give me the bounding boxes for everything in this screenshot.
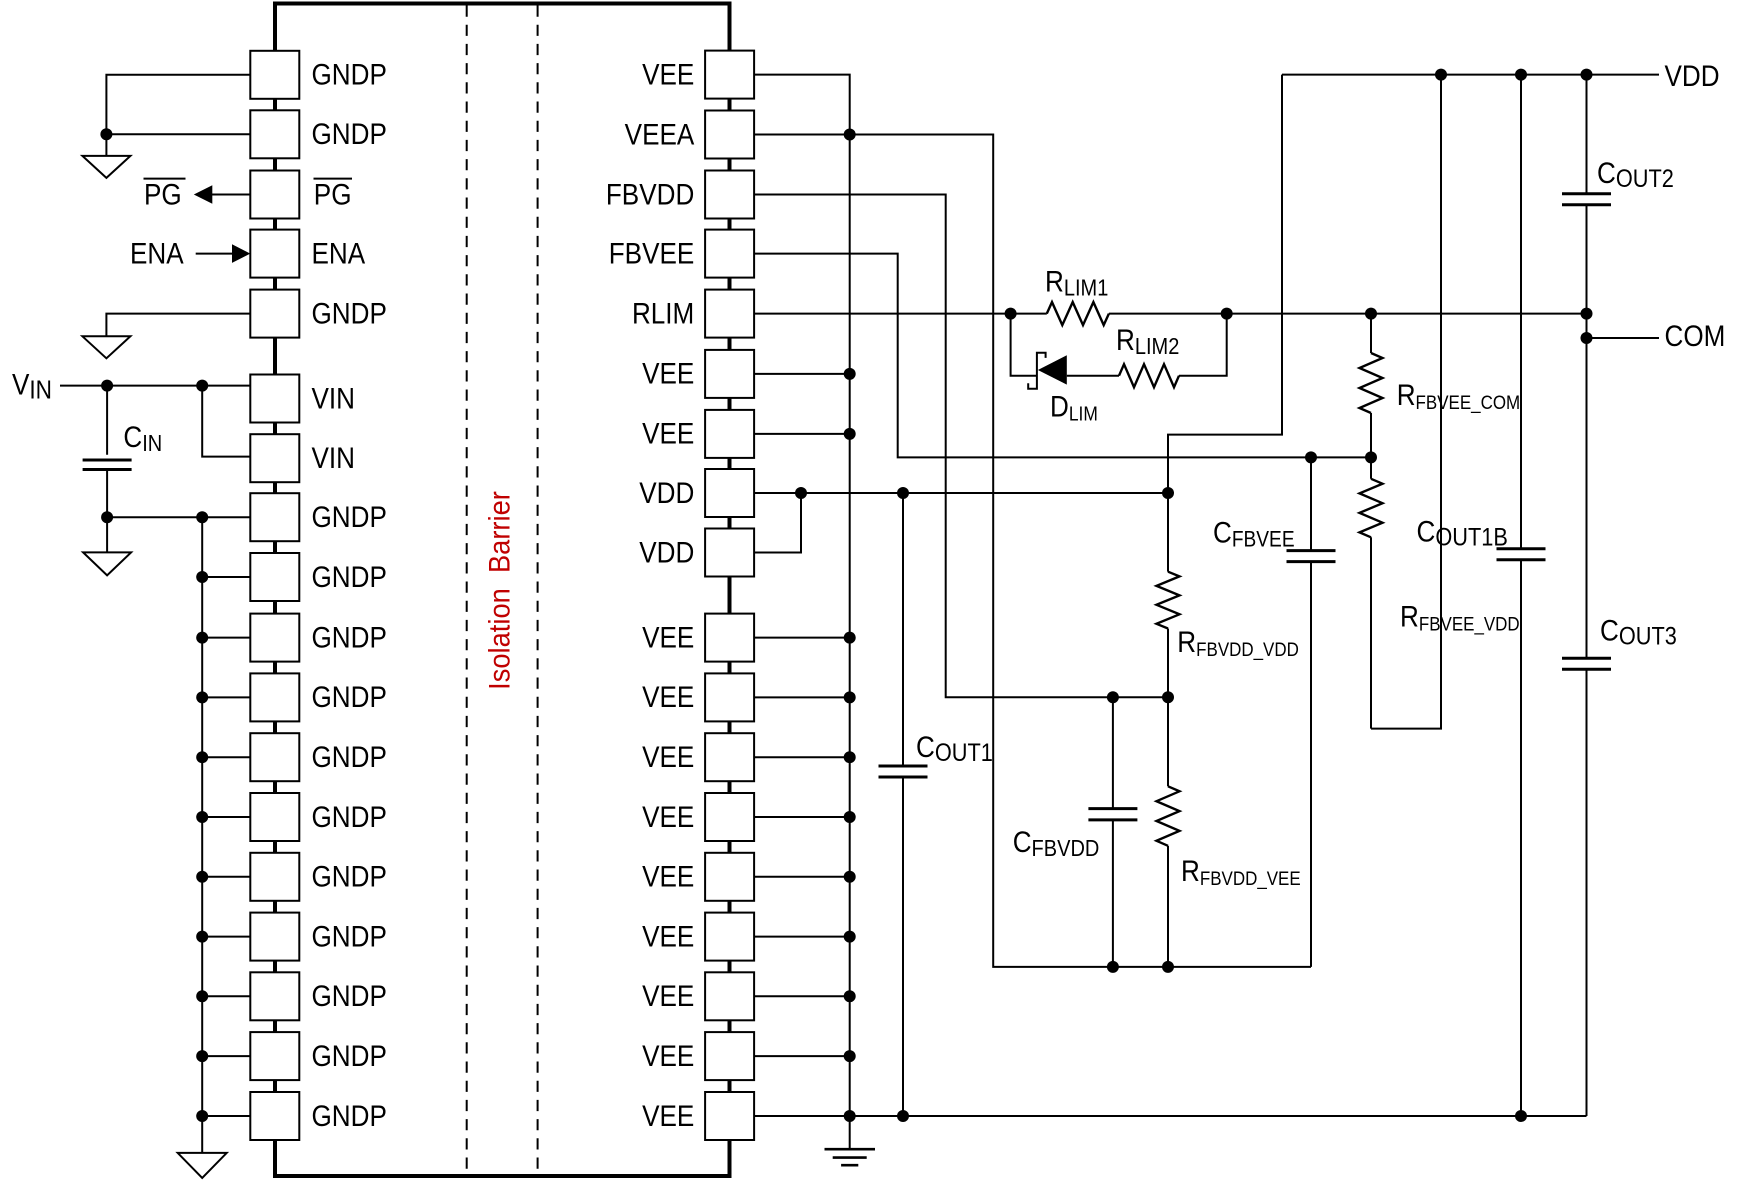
junction FBVEE / RFBVEE bbox=[1365, 451, 1377, 463]
wire VEE bottom rail bbox=[754, 1115, 1586, 1117]
junction VEE bus 697 bbox=[844, 691, 856, 703]
wire VDD pin9 bbox=[754, 493, 801, 553]
pin GNDP (left 8) bbox=[250, 493, 387, 541]
svg-text:VEE: VEE bbox=[642, 417, 694, 450]
wire VEE row 877 bbox=[754, 876, 850, 878]
wire VIN bbox=[60, 385, 250, 387]
junction COUT1 bottom bbox=[897, 1110, 909, 1122]
junction VEE bus 996 bbox=[844, 990, 856, 1002]
wire VEE row 697 bbox=[754, 696, 850, 698]
svg-text:ENA: ENA bbox=[130, 237, 184, 270]
capacitor COUT3 bbox=[1562, 658, 1611, 1116]
junction GNDP bus 577 bbox=[196, 571, 208, 583]
wire GNDP row 877 bbox=[202, 876, 250, 878]
junction RLIM2 top bbox=[1221, 308, 1233, 320]
pin VEE (right 6) bbox=[642, 350, 754, 398]
wire GNDP row 577 bbox=[202, 576, 250, 578]
wire GNDP row 817 bbox=[202, 816, 250, 818]
wire VEE pin1 + VEE bus bbox=[754, 75, 850, 1149]
svg-text:GNDP: GNDP bbox=[312, 920, 387, 953]
pin VEE (right 16) bbox=[642, 972, 754, 1020]
junction VIN / CIN bbox=[101, 380, 113, 392]
wire GNDP row 1056 bbox=[202, 1055, 250, 1057]
wire GNDP pin2 to ground bbox=[106, 134, 250, 156]
isolation barrier dashed line (left) bbox=[466, 6, 468, 1175]
pin VEE (right 11) bbox=[642, 673, 754, 721]
junction VDD rail / RFBVEE_VDD bbox=[1435, 69, 1447, 81]
svg-text:FBVEE: FBVEE bbox=[609, 237, 695, 270]
svg-text:GNDP: GNDP bbox=[312, 500, 387, 533]
junction COUT1B bottom bbox=[1515, 1110, 1527, 1122]
resistor RFBVEE_COM bbox=[1360, 314, 1383, 458]
svg-text:GNDP: GNDP bbox=[312, 560, 387, 593]
PG output arrow bbox=[206, 194, 250, 196]
svg-text:GNDP: GNDP bbox=[312, 117, 387, 150]
wire GNDP row 697 bbox=[202, 696, 250, 698]
svg-text:GNDP: GNDP bbox=[312, 860, 387, 893]
IC body U1 outline bbox=[275, 4, 730, 1177]
pin VEE (right 13) bbox=[642, 793, 754, 841]
junction bottom rail / RFBVDD_VEE bbox=[1162, 961, 1174, 973]
wire RLIM to COM (left part) bbox=[754, 313, 1047, 315]
pin VEE (right 18) bbox=[642, 1092, 754, 1140]
wire VEE pin6 bbox=[754, 373, 850, 375]
wire VEE row 757 bbox=[754, 756, 850, 758]
svg-text:VEE: VEE bbox=[642, 681, 694, 714]
wire VEE pin7 bbox=[754, 433, 850, 435]
svg-text:GNDP: GNDP bbox=[312, 979, 387, 1012]
junction GNDP bus 1116 bbox=[196, 1110, 208, 1122]
wire VDD rail top bbox=[1282, 74, 1659, 76]
wire VEE row 1056 bbox=[754, 1055, 850, 1057]
junction GNDP bus 697 bbox=[196, 691, 208, 703]
capacitor CIN bbox=[83, 386, 132, 518]
svg-text:GNDP: GNDP bbox=[312, 740, 387, 773]
pin VDD (right 9) bbox=[639, 529, 754, 577]
wire COM line (right part) bbox=[1109, 313, 1587, 315]
resistor RLIM1 bbox=[1047, 302, 1109, 325]
ground symbol (mid left) bbox=[82, 336, 130, 358]
ground symbol (top left) bbox=[82, 156, 130, 178]
ENA input arrow bbox=[196, 253, 236, 255]
junction FBVDD line / CFBVDD bbox=[1107, 691, 1119, 703]
wire CIN to ground bbox=[106, 517, 108, 552]
svg-text:VEE: VEE bbox=[642, 621, 694, 654]
pin VIN (left 6) bbox=[250, 375, 355, 423]
junction FBVDD line / RFBVDD bbox=[1162, 691, 1174, 703]
junction VEE bus 374 bbox=[844, 368, 856, 380]
junction bottom rail / CFBVDD bbox=[1107, 961, 1119, 973]
ground symbol (earth, VEE bus) bbox=[825, 1149, 876, 1165]
svg-text:VEE: VEE bbox=[642, 58, 694, 91]
pin GNDP (left 17) bbox=[250, 1032, 387, 1080]
svg-text:VDD: VDD bbox=[639, 476, 694, 509]
junction GNDP bus 937 bbox=[196, 931, 208, 943]
svg-text:Isolation Barrier: Isolation Barrier bbox=[483, 491, 516, 690]
svg-text:GNDP: GNDP bbox=[312, 681, 387, 714]
wire COM stub bbox=[1587, 337, 1660, 339]
wire GNDP row 937 bbox=[202, 936, 250, 938]
junction GNDP bus 1056 bbox=[196, 1050, 208, 1062]
capacitor COUT2 (on VDD/COM column) bbox=[1562, 75, 1611, 658]
svg-text:GNDP: GNDP bbox=[312, 800, 387, 833]
wire GNDP row 996 bbox=[202, 995, 250, 997]
junction RFBVDD_VDD top bbox=[1162, 487, 1174, 499]
junction GNDP bus 877 bbox=[196, 871, 208, 883]
pin VEE (right 12) bbox=[642, 733, 754, 781]
pin GNDP (left 14) bbox=[250, 853, 387, 901]
wire VEE row 996 bbox=[754, 995, 850, 997]
wire FBVDD bbox=[754, 195, 1168, 698]
pin VEE (right 14) bbox=[642, 853, 754, 901]
capacitor CFBVDD bbox=[1088, 697, 1137, 967]
junction VDD rail / COUT1B bbox=[1515, 69, 1527, 81]
svg-text:VEE: VEE bbox=[642, 1099, 694, 1132]
isolation barrier dashed line (right) bbox=[537, 6, 539, 1175]
svg-text:VEE: VEE bbox=[642, 740, 694, 773]
svg-text:VEE: VEE bbox=[642, 979, 694, 1012]
svg-text:GNDP: GNDP bbox=[312, 297, 387, 330]
svg-text:VEE: VEE bbox=[642, 1039, 694, 1072]
svg-text:VDD: VDD bbox=[639, 536, 694, 569]
pin PG (left 3) bbox=[250, 171, 352, 219]
pin GNDP (left 11) bbox=[250, 673, 387, 721]
wire VEE row 817 bbox=[754, 816, 850, 818]
junction RLIM branch bbox=[1005, 308, 1017, 320]
pin GNDP (left 9) bbox=[250, 553, 387, 601]
wire GNDP bus bbox=[201, 517, 203, 1153]
wire RFBVEE_VDD to VDD rail bbox=[1371, 75, 1441, 729]
junction VEEA on VEE bus bbox=[844, 129, 856, 141]
pin VEE (right 15) bbox=[642, 913, 754, 961]
svg-text:PG: PG bbox=[314, 178, 352, 211]
wire DLIM anode to RLIM2 bbox=[1067, 375, 1119, 377]
pin GNDP (left 16) bbox=[250, 972, 387, 1020]
pin GNDP (left 13) bbox=[250, 793, 387, 841]
pin GNDP (left 1) bbox=[250, 51, 387, 99]
wire GNDP row 757 bbox=[202, 756, 250, 758]
wire GNDP pin5 to ground bbox=[106, 314, 250, 337]
junction RFBVEE_COM top bbox=[1365, 308, 1377, 320]
junction VEE bus 937 bbox=[844, 931, 856, 943]
junction FBVEE / CFBVEE bbox=[1305, 451, 1317, 463]
wire GNDP pin8 row bbox=[107, 516, 250, 518]
wire VIN pin7 branch bbox=[202, 386, 250, 457]
junction VEE bus 877 bbox=[844, 871, 856, 883]
junction COM stub bbox=[1581, 332, 1593, 344]
svg-text:VIN: VIN bbox=[312, 382, 355, 415]
pin VEE (right 17) bbox=[642, 1032, 754, 1080]
svg-text:VDD: VDD bbox=[1665, 60, 1720, 93]
resistor RLIM2 bbox=[1119, 364, 1179, 387]
pin GNDP (left 10) bbox=[250, 614, 387, 662]
svg-text:VEE: VEE bbox=[642, 357, 694, 390]
wire VEEA: pin to FBVEE node rail bbox=[754, 135, 1311, 967]
wire RLIM2 to COM line bbox=[1179, 314, 1227, 376]
svg-text:FBVDD: FBVDD bbox=[606, 178, 694, 211]
wire VEE row 638 bbox=[754, 637, 850, 639]
svg-text:VEE: VEE bbox=[642, 920, 694, 953]
junction VEE bus 1056 bbox=[844, 1050, 856, 1062]
junction COM line / column bbox=[1581, 308, 1593, 320]
svg-text:VIN: VIN bbox=[312, 441, 355, 474]
pin GNDP (left 15) bbox=[250, 913, 387, 961]
wire VDD pin8 bbox=[754, 492, 1168, 494]
pin VIN (left 7) bbox=[250, 434, 355, 482]
svg-text:GNDP: GNDP bbox=[312, 58, 387, 91]
diode DLIM (schottky) bbox=[1028, 353, 1067, 389]
resistor RFBVDD_VDD bbox=[1157, 493, 1180, 697]
svg-text:VEE: VEE bbox=[642, 800, 694, 833]
capacitor COUT1B bbox=[1497, 75, 1546, 1116]
svg-text:COM: COM bbox=[1665, 319, 1726, 352]
node PG label bbox=[144, 178, 186, 211]
svg-text:RLIM: RLIM bbox=[632, 297, 694, 330]
svg-text:VEEA: VEEA bbox=[625, 118, 695, 151]
pin VEEA (right 2) bbox=[625, 111, 754, 159]
junction CIN bottom bbox=[101, 511, 113, 523]
pin ENA (left 4) bbox=[250, 230, 365, 278]
capacitor CFBVEE bbox=[1287, 457, 1336, 967]
resistor RFBVDD_VEE bbox=[1157, 697, 1180, 967]
junction VDD pins bbox=[795, 487, 807, 499]
wire RLIM branch down bbox=[1011, 314, 1036, 376]
junction GNDP bus top bbox=[196, 511, 208, 523]
junction GNDP bus 817 bbox=[196, 811, 208, 823]
wire VDD down-step to pin bbox=[1168, 75, 1282, 493]
wire GNDP pin1 to ground bbox=[106, 75, 250, 134]
pin RLIM (right 5) bbox=[632, 290, 754, 338]
junction VEE bus 434 bbox=[844, 428, 856, 440]
junction GNDP bus 638 bbox=[196, 632, 208, 644]
pin GNDP (left 12) bbox=[250, 733, 387, 781]
wire FBVEE bbox=[754, 254, 1371, 458]
svg-text:GNDP: GNDP bbox=[312, 1039, 387, 1072]
resistor RFBVEE_VDD bbox=[1360, 457, 1383, 728]
pin GNDP (left 18) bbox=[250, 1092, 387, 1140]
junction VEE bus 757 bbox=[844, 751, 856, 763]
junction VIN branch bbox=[196, 380, 208, 392]
junction VDD rail / COUT2 bbox=[1581, 69, 1593, 81]
wire GNDP row 638 bbox=[202, 637, 250, 639]
pin FBVEE (right 4) bbox=[609, 230, 754, 278]
junction GNDP bus 996 bbox=[196, 990, 208, 1002]
pin GNDP (left 2) bbox=[250, 110, 387, 158]
svg-text:ENA: ENA bbox=[312, 237, 366, 270]
capacitor COUT1 bbox=[879, 493, 928, 1116]
junction GNDP1/GNDP2 bbox=[100, 128, 112, 140]
junction VEE bus bottom bbox=[844, 1110, 856, 1122]
svg-text:GNDP: GNDP bbox=[312, 621, 387, 654]
pin VDD (right 8) bbox=[639, 469, 754, 517]
svg-text:PG: PG bbox=[144, 178, 182, 211]
pin VEE (right 7) bbox=[642, 410, 754, 458]
ground symbol (below CIN) bbox=[83, 552, 131, 575]
svg-text:VEE: VEE bbox=[642, 860, 694, 893]
wire VEE row 937 bbox=[754, 936, 850, 938]
svg-text:GNDP: GNDP bbox=[312, 1099, 387, 1132]
ground symbol (bottom left) bbox=[178, 1153, 227, 1178]
junction VEE bus 638 bbox=[844, 632, 856, 644]
pin GNDP (left 5) bbox=[250, 290, 387, 338]
junction VEE bus 817 bbox=[844, 811, 856, 823]
pin VEE (right 10) bbox=[642, 614, 754, 662]
wire GNDP row 1116 bbox=[202, 1115, 250, 1117]
junction GNDP bus 757 bbox=[196, 751, 208, 763]
pin VEE (right 1) bbox=[642, 51, 754, 99]
pin FBVDD (right 3) bbox=[606, 171, 754, 219]
junction COUT1 top bbox=[897, 487, 909, 499]
